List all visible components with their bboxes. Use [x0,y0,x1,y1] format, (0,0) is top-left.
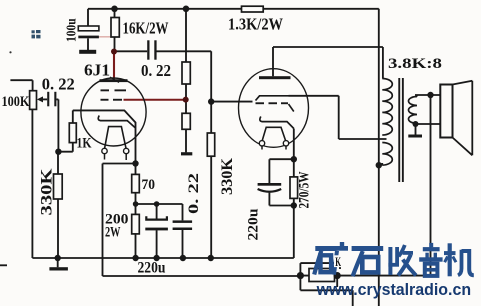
svg-text:270/5W: 270/5W [297,172,313,209]
svg-text:330K: 330K [39,169,56,216]
svg-text:3.8K:8: 3.8K:8 [388,56,442,72]
char kuang [315,246,335,251]
red screen wire tube1 [124,99,186,101]
speaker LS1 [440,85,452,138]
tube V2 cathode [260,117,294,129]
stray dot [9,51,11,53]
capacitor 220u cathode1 plates [146,216,167,219]
svg-text:1K: 1K [77,136,92,152]
resistor 200/2W body [132,214,140,234]
wire tube2 grid feed [211,101,252,103]
tube V1 cathode [98,116,135,129]
wire coupling cap node [114,51,211,101]
resistor 70 body [132,174,140,192]
wire secondary bottom to speaker [416,124,441,135]
svg-text:0. 22: 0. 22 [141,61,171,80]
wire cathode junction to feedback line [103,164,301,277]
svg-text:2W: 2W [105,225,121,241]
wire bypass node line [136,203,183,205]
faint pink artifact line [99,36,113,38]
tube V2 plate bar [259,76,291,79]
svg-text:1.3K/2W: 1.3K/2W [228,15,283,34]
svg-text:220u: 220u [138,260,166,277]
resistor 330K mid body [207,133,214,156]
wire B+ top bus [88,8,379,10]
ground bar under 100u [79,50,96,54]
wire primary bottom to B+ [379,163,383,165]
capacitor 220u cathode2 plates [258,183,282,186]
wire 330K mid column [210,102,212,258]
resistor 330K left body [54,174,63,199]
wire secondary top to speaker [415,94,440,96]
tube V2 pin circles [259,141,264,146]
wire tube2 plate line [273,47,383,79]
resistor screen divider upper body [182,62,190,84]
transformer T1 core [398,78,400,182]
labels [42,15,284,94]
wire wiper to cap [40,98,47,100]
tube V1 grid dashes row A [101,89,110,91]
svg-text:www.crystalradio.cn: www.crystalradio.cn [316,280,471,299]
svg-text:K: K [335,254,341,269]
red junction dots [111,49,117,55]
tube V1 plate bar [100,79,128,82]
tube V1 grid dashes row B [101,99,109,101]
resistor K box body [309,269,335,282]
wire lower loop to bottom edge [300,276,352,306]
wire left edge mark [0,264,7,266]
wire pot bottom to ground bus [31,109,33,258]
tube V1 label pointer [110,77,119,83]
svg-text:100K: 100K [2,94,30,110]
tube V1 heater [105,127,126,149]
potentiometer wiper arrow [37,96,43,102]
potentiometer 100K body [30,91,37,110]
svg-text:220u: 220u [246,209,262,241]
tube V1 pin circles [102,148,107,153]
wire ground bus [32,257,293,259]
wire feedback right vertical [337,95,430,276]
char shou [388,247,392,275]
wire 16K column [114,9,116,52]
svg-text:0. 22: 0. 22 [42,75,75,94]
resistor 1K body [69,123,76,143]
wire B+ vertical [378,9,380,306]
transformer T1 primary winding [382,79,392,136]
resistor screen divider lower body [182,113,190,129]
svg-text:100u: 100u [65,18,80,42]
wire 100u bottom lead to ground bar [87,38,89,50]
wire 0.22 cap2 leads [182,204,184,258]
wire tube2 cathode column [293,129,295,259]
tube V2 grid dashes [256,102,265,104]
wire 330K left column [57,152,59,268]
wire 220u cap1 leads [156,204,158,258]
svg-text:6J1: 6J1 [84,61,110,80]
wire 100u top lead [87,9,89,26]
ground bar secondary [408,135,422,138]
svg-text:16K/2W: 16K/2W [123,19,169,38]
tube V2 beam plates [256,96,289,101]
resistor 16K/2W body [111,18,119,38]
wire input [10,80,32,91]
char ji [448,243,452,276]
wire tube2 screen to transformer [289,96,387,139]
svg-text:70: 70 [142,177,156,193]
wire grid line tube1 [73,110,136,163]
ground bar left bus [49,267,68,270]
wire node A to 1K [58,110,72,151]
wire 70-200 column [135,164,137,259]
tube V2 heater [262,127,286,141]
wire 220u-2 branch [269,159,293,205]
watermark chinese characters [314,242,474,276]
capacitor 100u plates [78,26,99,31]
char shi [352,246,384,251]
resistor 1.3K/2W body [242,6,264,12]
capacitor 0.22 cathode1 plates [173,220,193,223]
wire K box connections [300,263,340,276]
red plate wire tube1 [113,52,115,80]
resistor 270/5W body [290,177,298,199]
svg-text:0. 22: 0. 22 [186,173,202,214]
capacitor 0.22 coupling plates [147,40,149,59]
label K over watermark gap [334,255,342,267]
tube V2 grid to cathode diagonal [289,104,294,112]
svg-text:330K: 330K [219,158,236,195]
tube V2 envelope [239,69,309,148]
tube V1 6J1 envelope [81,78,146,146]
capacitor 0.22 input plates [47,92,49,107]
char yin [429,243,433,247]
transformer T1 secondary winding [409,97,418,124]
wire cap out down to node A [56,99,58,151]
blue icon top-left [32,30,41,38]
ground bar screen divider [181,152,192,155]
wire screen divider column [185,9,187,153]
